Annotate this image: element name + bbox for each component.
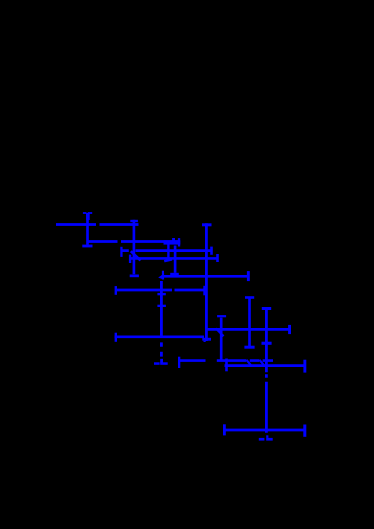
wire H5 xyxy=(164,275,248,278)
end bar V4 top xyxy=(202,223,212,226)
tick H4 left xyxy=(129,255,131,263)
leader elbow stub xyxy=(160,359,163,363)
wire V2 xyxy=(133,220,136,274)
end bar V6 bottom xyxy=(244,346,254,349)
wire H12 xyxy=(179,359,274,362)
wire H1 xyxy=(56,223,139,226)
tick H3 right xyxy=(210,247,213,255)
label CL8 stem xyxy=(86,213,90,220)
arrow tick V8 a xyxy=(157,293,165,295)
end bar V7 top xyxy=(262,307,271,310)
wire V6 xyxy=(248,297,251,347)
oblique tick below H4 xyxy=(164,259,172,261)
tick H9 right xyxy=(288,325,291,334)
label CL6 a xyxy=(259,438,265,441)
wire H3 xyxy=(121,249,212,252)
tick H13 right xyxy=(303,360,306,373)
end bar V5 top xyxy=(217,315,226,317)
wire H13 xyxy=(225,364,306,367)
wire V5 xyxy=(220,318,223,361)
component CL1 top stub xyxy=(172,238,175,241)
component CL1 body xyxy=(164,240,181,244)
tick H5 right xyxy=(247,271,250,281)
label CL6 b xyxy=(266,438,273,441)
oblique connector b xyxy=(260,360,265,366)
arrow tick V8 b xyxy=(157,305,166,307)
end bar V3 bottom xyxy=(170,273,179,275)
wire H9 xyxy=(207,328,290,331)
wire H15 xyxy=(224,429,305,432)
tick H12 left xyxy=(178,357,180,368)
wire H6 xyxy=(115,289,205,292)
cap V2 top xyxy=(130,220,138,222)
end bar V6 top xyxy=(245,296,254,299)
tick H4 right xyxy=(216,254,219,262)
tick H15 left xyxy=(223,424,226,435)
foot V4 bottom xyxy=(202,338,211,341)
tick S4 xyxy=(216,328,224,336)
end bar V1 bottom xyxy=(82,245,92,248)
label CL6 c xyxy=(266,435,268,438)
oblique tick at V2 xyxy=(131,251,141,260)
label CL8 a xyxy=(83,212,86,214)
wire H4 xyxy=(130,257,218,260)
component CL1 lower stub xyxy=(167,245,169,259)
arrow A1 head xyxy=(158,273,164,279)
label CL8 b xyxy=(88,212,92,214)
dashed leader V8 xyxy=(160,281,163,357)
wire V1 xyxy=(86,214,89,245)
stub V4 bottom xyxy=(204,341,206,342)
tick H15 right xyxy=(303,425,306,437)
end bar V2 bottom xyxy=(130,275,139,278)
component CL1 right tick xyxy=(178,238,180,246)
leader elbow foot xyxy=(160,362,168,365)
tick H3 left xyxy=(120,247,122,257)
wire V4 xyxy=(205,223,208,341)
tick H13 left xyxy=(225,359,228,372)
mid bar V7 xyxy=(262,342,272,345)
tick H6 left xyxy=(115,286,117,295)
tick H6 right xyxy=(203,286,205,296)
wire V3 xyxy=(174,246,177,273)
wire H2 xyxy=(87,240,180,243)
tick H10 left xyxy=(115,333,117,342)
wire H10 xyxy=(115,335,205,338)
oblique connector a xyxy=(246,360,251,366)
wire V7 xyxy=(265,309,268,432)
leader elbow dash xyxy=(154,362,160,365)
arrow A1 stub xyxy=(162,271,164,280)
